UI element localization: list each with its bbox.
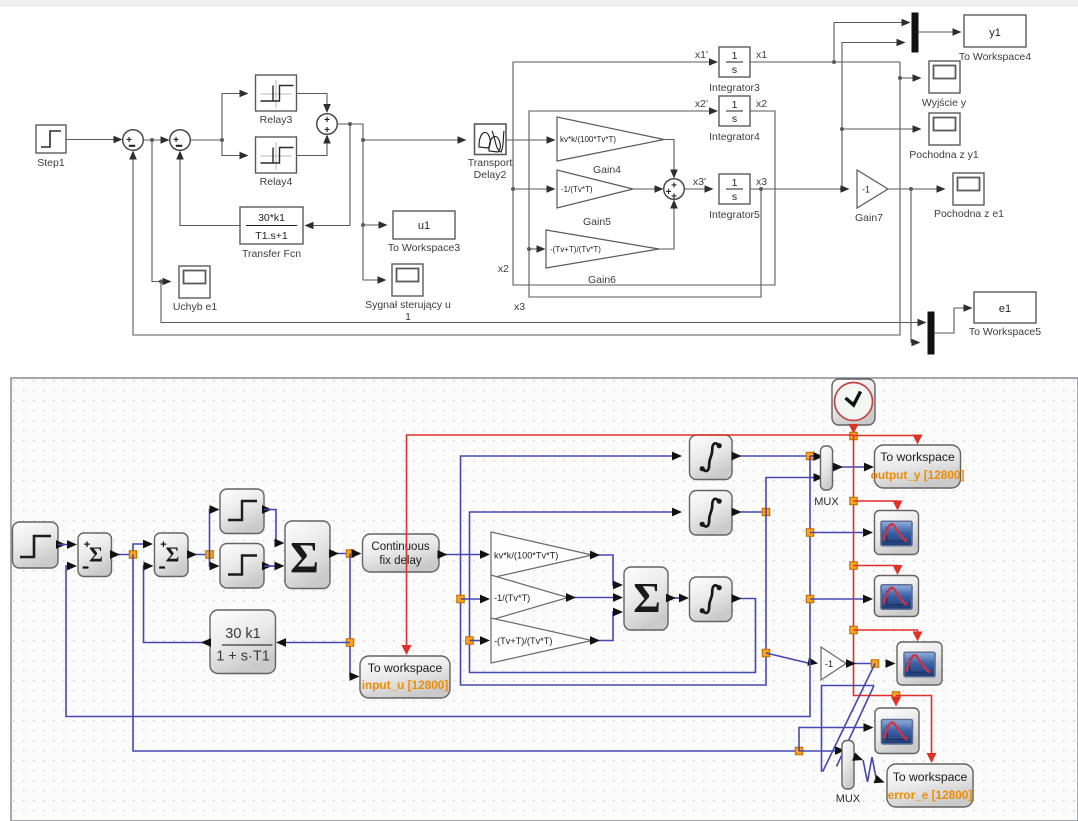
wire x3 to Gain7 mux and Pochodna z y1 [750, 39, 922, 193]
block Step1 [36, 125, 66, 169]
svg-text:x2: x2 [498, 263, 509, 275]
svg-text:-1/(Tv*T): -1/(Tv*T) [494, 593, 530, 603]
block 30k1 transfer function (Xcos) [210, 610, 276, 674]
sum junction Sum4 [664, 179, 685, 203]
block Integrator5 [709, 174, 760, 221]
svg-text:-1/(Tv*T): -1/(Tv*T) [561, 185, 593, 194]
node x3 (integrator output) [756, 176, 767, 188]
wire red event to To workspace input_u [402, 435, 854, 655]
svg-text:kv*k/(100*Tv*T): kv*k/(100*Tv*T) [494, 551, 558, 561]
svg-text:kv*k/(100*Tv*T): kv*k/(100*Tv*T) [560, 135, 616, 144]
wire x1 to mux and Wyjscie y and feedback to Sum1 [129, 19, 921, 335]
sum Sum1 (Xcos) [78, 533, 112, 577]
svg-text:Sygnał sterujący u: Sygnał sterujący u [365, 299, 451, 311]
svg-text:x2: x2 [756, 98, 767, 110]
svg-text:Gain4: Gain4 [593, 164, 621, 176]
mux Mux1 (Xcos) [814, 446, 839, 508]
wire Sum4 to Integrator5 [685, 185, 714, 193]
svg-text:Gain6: Gain6 [588, 274, 616, 286]
svg-text:Continuous: Continuous [371, 541, 429, 553]
block Relay3 [256, 75, 297, 126]
block scope Pochodna z e1 [934, 173, 1004, 220]
svg-text:x1': x1' [695, 49, 708, 61]
wire x3 loop Integrator5 to Integrator4 [529, 107, 763, 297]
svg-text:To Workspace3: To Workspace3 [388, 242, 460, 254]
sum junction Sum3 [317, 114, 338, 137]
svg-text:Σ: Σ [89, 543, 103, 567]
wire e1 tap to Uchyb scope and feedback [152, 140, 927, 326]
node x2' [695, 98, 708, 110]
svg-text:Pochodna z e1: Pochodna z e1 [934, 208, 1004, 220]
wire Sum3 to Transport Delay2 [338, 122, 467, 144]
wire y feedback to scopes and Sum1 minus [66, 456, 873, 717]
svg-text:x2': x2' [695, 98, 708, 110]
svg-text:-1: -1 [862, 185, 870, 195]
wire red event to Scope1 [850, 497, 903, 510]
svg-text:30 k1: 30 k1 [225, 626, 260, 642]
block Transfer Fcn [240, 207, 303, 260]
gain kv*k triangle (Xcos) [491, 532, 592, 578]
svg-text:Uchyb e1: Uchyb e1 [173, 301, 218, 313]
block scope Sygnal sterujacy u [365, 264, 451, 323]
sum Sum3 big (Xcos) [285, 521, 330, 589]
svg-text:T1.s+1: T1.s+1 [255, 230, 288, 242]
wire loop Integrator3 to Integrator2 with x3 tap [466, 508, 756, 673]
svg-text:1: 1 [732, 177, 738, 189]
svg-text:output_y [12800]: output_y [12800] [871, 468, 965, 482]
block Scope4 (Xcos) [875, 708, 919, 754]
wire u node to 30k1 and To workspace input_u [276, 554, 360, 681]
svg-text:Relay3: Relay3 [260, 114, 293, 126]
svg-text:Σ: Σ [166, 543, 180, 567]
wire Gain7 to Pochodna z e1 and mux To Workspace5 [888, 185, 946, 346]
mux Mux1 (bottom of top diagram) [928, 304, 973, 354]
gain Gain4 [557, 117, 664, 176]
svg-text:+: + [126, 135, 132, 146]
wire Mux2 to To workspace error_e zigzag [852, 752, 886, 786]
svg-text:To workspace: To workspace [880, 450, 955, 464]
wire Sum2 to Relay1 and Relay2 [187, 505, 220, 570]
svg-text:+: + [671, 181, 677, 192]
sum Sum2 (Xcos) [155, 533, 189, 577]
wire Relay3 to Sum3 [297, 94, 331, 114]
gain -1 (Xcos) [821, 647, 846, 680]
svg-text:-1: -1 [825, 659, 833, 670]
node x2 (loop label) [498, 263, 509, 275]
svg-text:1: 1 [405, 311, 411, 323]
wire Mux1 to To workspace output_y [833, 463, 875, 472]
wire Integrator1 to Mux1 (Xcos) [732, 452, 824, 461]
svg-text:+: + [671, 192, 677, 203]
svg-text:Transport: Transport [468, 157, 513, 169]
wire gain -1/TvT to Sum4 (Xcos) [566, 593, 623, 602]
top gray strip [0, 0, 1078, 377]
wire x2 loop Integrator4 to Integrator3 [513, 58, 775, 285]
block Integrator2 (Xcos) [690, 491, 733, 536]
wire red event to Scope3 [850, 626, 923, 641]
wire loop x2 down to -1 gain and Integrator1 with x2 tap [457, 452, 819, 685]
svg-text:-(Tv+T)/(Tv*T): -(Tv+T)/(Tv*T) [550, 245, 601, 254]
block y1 To Workspace4 [959, 15, 1031, 63]
wire -1 gain output to Scope3 and Mux2 diagonals [822, 659, 896, 772]
block Integrator3 (Xcos) [690, 577, 733, 622]
wire clock event red main [849, 424, 859, 692]
svg-text:To workspace: To workspace [368, 661, 443, 675]
block Relay2 (Xcos) [220, 544, 264, 589]
block Scope3 (Xcos) [897, 642, 942, 685]
block scope Wyjscie y [922, 61, 967, 109]
wire Relay4 to Sum3 [297, 135, 331, 156]
svg-text:-(Tv+T)/(Tv*T): -(Tv+T)/(Tv*T) [494, 636, 552, 646]
svg-text:fix delay: fix delay [379, 555, 421, 567]
svg-text:+: + [173, 135, 179, 146]
svg-text:30*k1: 30*k1 [258, 212, 285, 224]
svg-text:Wyjście y: Wyjście y [922, 97, 967, 109]
block To workspace input_u [360, 656, 450, 698]
wire 30k1 to Sum2 minus input [144, 562, 212, 647]
wire Gain6 to Sum4 [659, 200, 678, 250]
node x3 (loop label) [514, 301, 525, 313]
svg-text:Σ: Σ [633, 576, 660, 622]
wire Gain4 to Sum4 [664, 140, 678, 179]
svg-text:Pochodna z y1: Pochodna z y1 [909, 149, 979, 161]
wire Relay2 to Sum3 (Xcos) [262, 562, 285, 571]
svg-text:+: + [160, 539, 166, 551]
svg-text:error_e [12800]: error_e [12800] [888, 788, 973, 802]
wire Sum4 to Integrator3 (Xcos) [666, 594, 689, 603]
mux Mux2 (Xcos) [836, 741, 861, 806]
svg-text:Gain7: Gain7 [855, 212, 883, 224]
wire Sum1 to Sum2 with e1 node [144, 136, 170, 144]
svg-text:s: s [732, 113, 737, 125]
svg-text:+: + [84, 539, 90, 551]
svg-text:s: s [732, 191, 737, 203]
svg-text:x3': x3' [693, 176, 706, 188]
svg-text:To Workspace5: To Workspace5 [969, 326, 1041, 338]
gain -(Tv+T) triangle (Xcos) [491, 618, 592, 663]
wire x3 tap to Gain6 [527, 245, 546, 253]
sum junction Sum2 [170, 130, 191, 151]
node x3' [693, 176, 706, 188]
block scope Uchyb e1 [173, 266, 218, 313]
wire u tap to To Workspace3 and scope [361, 140, 388, 284]
svg-text:x3: x3 [756, 176, 767, 188]
wire red event to Scope2 [850, 562, 903, 575]
wire Relay1 to Sum3 (Xcos) [262, 505, 285, 547]
wire Transfer Fcn to Sum2 [176, 151, 240, 226]
svg-text:y1: y1 [989, 27, 1001, 39]
svg-text:1: 1 [732, 99, 738, 111]
node x1' [695, 49, 708, 61]
gain -1/(Tv*T) triangle (Xcos) [491, 575, 568, 620]
wire gain kv to Sum4 (Xcos) [590, 551, 623, 590]
svg-text:MUX: MUX [836, 793, 861, 805]
wire Step1 to Sum1 [66, 136, 123, 144]
block Clock (Xcos) [832, 379, 875, 425]
svg-text:Transfer Fcn: Transfer Fcn [242, 248, 301, 260]
svg-text:Delay2: Delay2 [474, 169, 507, 181]
sum Sum4 (Xcos) [624, 567, 668, 630]
svg-text:1: 1 [732, 50, 738, 62]
node x1 [756, 49, 767, 61]
wire red event to To workspace output_y [854, 435, 923, 445]
wire Sum1 to Sum2 with error node [110, 540, 153, 559]
wire gain -(Tv+T) to Sum4 (Xcos) [590, 608, 623, 645]
wire Gain5 to Sum4 [633, 185, 664, 193]
block Scope2 (Xcos) [875, 576, 919, 617]
block Transport Delay2 [468, 124, 513, 181]
svg-text:Step1: Step1 [37, 157, 65, 169]
canvas with dotted grid [11, 378, 1078, 821]
wire Sum3 to Continuous fix delay with u node [329, 549, 362, 558]
svg-text:s: s [732, 64, 737, 76]
svg-text:Integrator5: Integrator5 [709, 209, 760, 221]
block Integrator1 (Xcos) [690, 435, 733, 480]
block Scope1 (Xcos) [875, 511, 919, 555]
gain Gain6 [546, 230, 659, 286]
svg-text:e1: e1 [999, 303, 1011, 315]
svg-text:x1: x1 [756, 49, 767, 61]
svg-text:u1: u1 [418, 220, 430, 232]
block u1 To Workspace3 [388, 211, 460, 254]
wire error feedback to Mux2 and Scope4 [133, 555, 874, 755]
svg-text:To workspace: To workspace [893, 770, 968, 784]
block To workspace error_e [887, 764, 973, 807]
block e1 To Workspace5 [969, 292, 1041, 338]
wire Integrator2 output junction x2 [732, 473, 824, 516]
wire red event bottom to Scope4 and error_e [854, 692, 937, 764]
block Relay4 [256, 137, 297, 188]
wire Transport Delay2 to Gain4 [506, 136, 556, 144]
gain Gain7 [855, 170, 888, 224]
wire Step to Sum1 (Xcos) [56, 540, 77, 549]
svg-text:1 + s·T1: 1 + s·T1 [216, 649, 270, 665]
gain Gain5 [557, 170, 633, 228]
svg-text:x3: x3 [514, 301, 525, 313]
svg-text:Σ: Σ [290, 533, 319, 582]
svg-text:Gain5: Gain5 [583, 216, 611, 228]
block Continuous fix delay [363, 534, 440, 572]
node x2 (integrator output) [756, 98, 767, 110]
svg-text:Integrator4: Integrator4 [709, 131, 760, 143]
block scope Pochodna z y1 [909, 113, 979, 161]
wire Sum2 to Relay3 and Relay4 [191, 90, 249, 160]
block Step (Xcos) [13, 522, 59, 568]
svg-text:Relay4: Relay4 [260, 176, 293, 188]
block Integrator3 [709, 47, 760, 94]
svg-text:input_u [12800]: input_u [12800] [362, 678, 449, 692]
svg-text:MUX: MUX [814, 496, 839, 508]
wire x2 tap to Gain5 [511, 185, 556, 193]
sum junction Sum1 [123, 130, 144, 151]
svg-text:Integrator3: Integrator3 [709, 82, 760, 94]
block Relay1 (Xcos) [220, 489, 264, 534]
wire delay to Gain kv (Xcos) [438, 550, 491, 559]
svg-text:+: + [324, 125, 330, 136]
wire node u to Transfer Fcn feedback [305, 124, 351, 229]
svg-text:To Workspace4: To Workspace4 [959, 51, 1031, 63]
mux Mux (top) [912, 13, 962, 52]
block To workspace output_y [871, 445, 965, 488]
block Integrator4 [709, 96, 760, 143]
